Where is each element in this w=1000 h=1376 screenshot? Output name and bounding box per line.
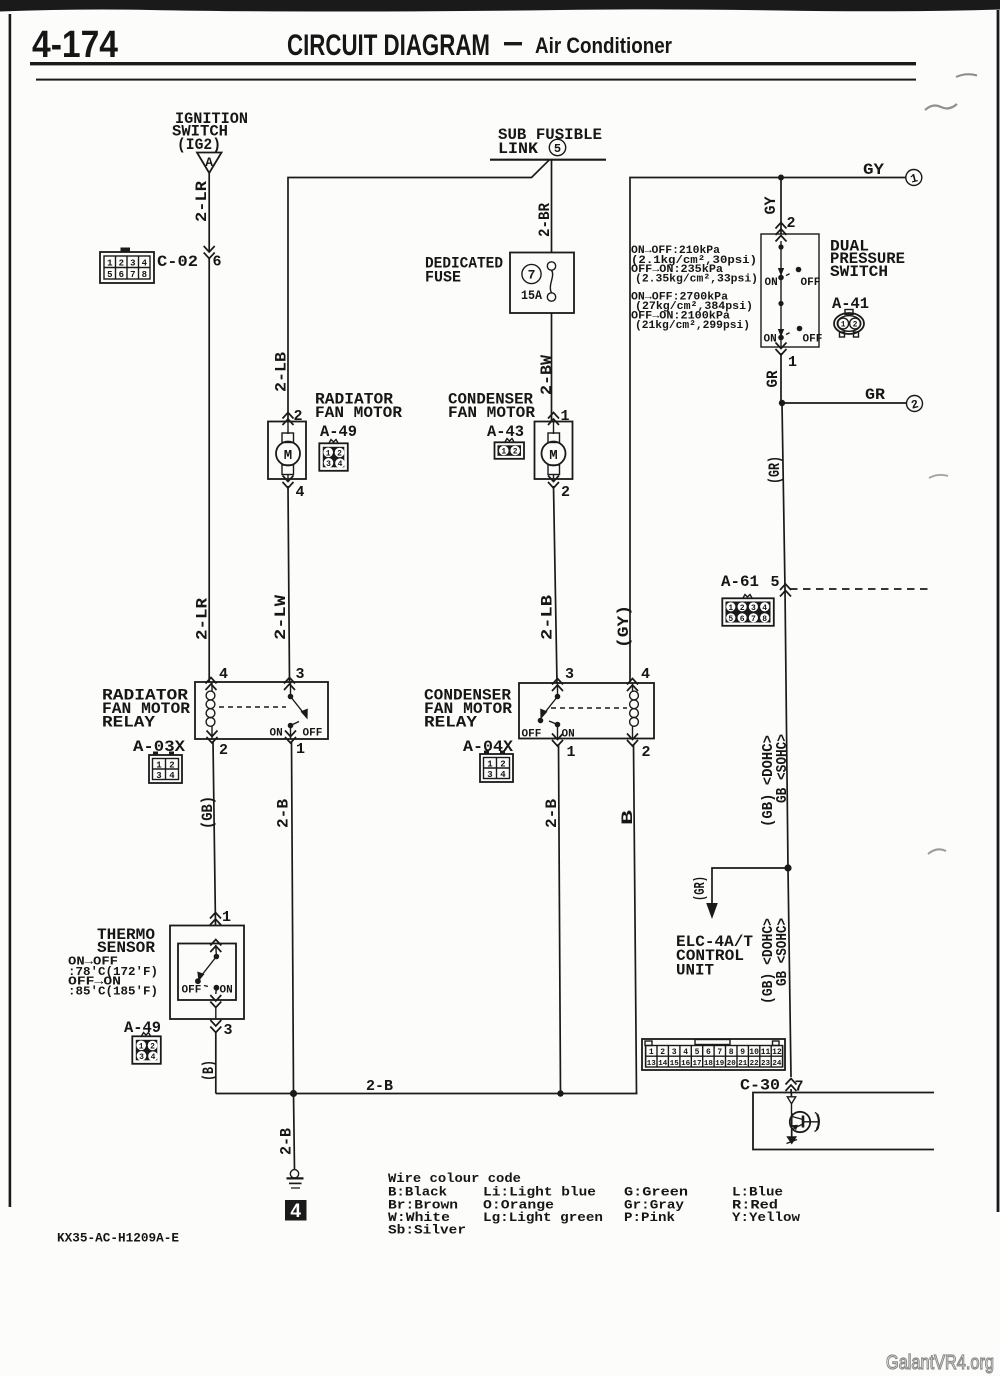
node GR junction — [779, 400, 785, 406]
relay coil condenser — [630, 683, 639, 739]
svg-text:21: 21 — [738, 1060, 748, 1068]
chevron inside box top — [776, 236, 787, 242]
connector break pin 1 — [776, 343, 787, 356]
svg-text:Lg:Light green: Lg:Light green — [483, 1210, 603, 1225]
ground symbol — [287, 1170, 304, 1188]
svg-text:B: B — [619, 809, 637, 825]
connector break pin 1 — [210, 913, 221, 926]
svg-text:2: 2 — [150, 1043, 155, 1052]
switch contact lower — [764, 277, 823, 346]
svg-text:3: 3 — [224, 1022, 233, 1039]
wire GY down to pressure switch — [780, 178, 782, 235]
svg-text:1: 1 — [326, 449, 331, 458]
header thick rule — [30, 62, 916, 65]
connector A-03X icon — [149, 752, 182, 784]
svg-text:4: 4 — [290, 1201, 301, 1222]
svg-text:(2.35kg/cm²,33psi): (2.35kg/cm²,33psi) — [635, 274, 758, 286]
svg-text:6: 6 — [213, 254, 222, 271]
node ground junction — [290, 1090, 297, 1097]
connector break pin 2 — [548, 476, 559, 489]
svg-text:15A: 15A — [521, 288, 542, 303]
relay A-03X box — [195, 682, 328, 739]
header dash — [504, 42, 522, 45]
svg-text:4: 4 — [142, 258, 148, 268]
svg-text:M: M — [284, 448, 292, 464]
scan artifact dash top right — [956, 74, 977, 77]
svg-text:OFF: OFF — [801, 277, 821, 289]
wire A-61 to junction — [785, 589, 788, 868]
svg-text:3: 3 — [487, 770, 492, 780]
svg-text:LINK: LINK — [498, 140, 538, 158]
svg-text:2-B: 2-B — [278, 1128, 296, 1155]
svg-text:FUSE: FUSE — [425, 269, 461, 287]
svg-text:11: 11 — [761, 1048, 771, 1057]
svg-text:3: 3 — [139, 1053, 144, 1062]
svg-text:RELAY: RELAY — [102, 714, 155, 732]
svg-text:ON: ON — [764, 334, 777, 346]
connector break pin 3 — [210, 1020, 221, 1033]
svg-text:19: 19 — [715, 1060, 725, 1068]
thermo switch — [182, 945, 233, 997]
svg-text:4: 4 — [641, 666, 650, 683]
svg-text:ON: ON — [220, 985, 233, 997]
svg-text:2-LR: 2-LR — [193, 181, 211, 222]
svg-text:GR: GR — [865, 386, 885, 404]
connector A-49 icon — [319, 440, 348, 471]
connector A-04X icon — [480, 751, 513, 783]
svg-text:(GR): (GR) — [692, 876, 709, 901]
svg-text:1: 1 — [561, 408, 570, 425]
svg-text:2: 2 — [642, 744, 651, 761]
svg-text:2: 2 — [561, 484, 570, 501]
svg-text:A-61: A-61 — [721, 573, 759, 591]
svg-text:SWITCH: SWITCH — [830, 263, 888, 281]
svg-text:6: 6 — [740, 615, 745, 624]
svg-text:13: 13 — [647, 1060, 657, 1068]
connector break pin 2 — [283, 413, 294, 426]
svg-text:(IG2): (IG2) — [177, 136, 221, 154]
svg-text:GR: GR — [764, 370, 782, 387]
svg-text:16: 16 — [681, 1060, 691, 1068]
connector break pin 4 — [283, 476, 294, 489]
control unit box (open right) — [753, 1093, 934, 1150]
GR off-page wire — [782, 402, 906, 404]
svg-text:FAN MOTOR: FAN MOTOR — [448, 404, 535, 422]
connector break pin 2 — [207, 731, 218, 744]
svg-text:P:Pink: P:Pink — [624, 1210, 675, 1225]
svg-text:23: 23 — [761, 1060, 771, 1068]
right bus GY wire — [630, 178, 906, 683]
wire 2-B cond relay to bus — [559, 744, 561, 1094]
connector break pin 3 — [284, 678, 295, 691]
svg-text:3: 3 — [156, 771, 161, 781]
svg-text:24: 24 — [772, 1060, 782, 1068]
svg-text:2-LR: 2-LR — [194, 598, 212, 640]
connector break pin 1 — [548, 413, 559, 426]
svg-text:1: 1 — [788, 354, 797, 371]
svg-text:4: 4 — [762, 604, 767, 613]
svg-text:FAN MOTOR: FAN MOTOR — [315, 404, 402, 422]
svg-text:3: 3 — [672, 1048, 677, 1057]
svg-text:14: 14 — [658, 1060, 668, 1068]
svg-text:2-BW: 2-BW — [538, 355, 556, 395]
svg-text:5: 5 — [107, 270, 112, 280]
off-page circle 2 — [907, 396, 923, 413]
svg-text:3: 3 — [751, 604, 756, 613]
wire (GB) relay to thermo — [213, 741, 216, 925]
svg-text:1: 1 — [841, 321, 846, 330]
connector break pin 2 — [776, 223, 787, 236]
svg-text:CIRCUIT DIAGRAM: CIRCUIT DIAGRAM — [287, 29, 490, 62]
svg-text:1: 1 — [222, 909, 231, 926]
connector A-49 thermo icon — [132, 1033, 161, 1064]
connector break pin 4 — [627, 679, 638, 692]
svg-text:(GR): (GR) — [766, 456, 784, 484]
svg-text:2: 2 — [169, 760, 174, 770]
svg-text:7: 7 — [751, 615, 756, 624]
wire to ELC arrow — [712, 868, 788, 905]
connector break pin 4 — [206, 678, 217, 691]
svg-text:1: 1 — [296, 741, 305, 758]
svg-text:1: 1 — [139, 1042, 144, 1051]
connector C-02 icon — [100, 248, 154, 284]
motor M box condenser — [535, 422, 573, 480]
connector break pin 7 — [786, 1079, 797, 1092]
arrowhead ELC — [706, 903, 718, 919]
svg-text:2: 2 — [294, 408, 303, 425]
connector A-61 icon — [722, 595, 774, 626]
svg-text:(21kg/cm²,299psi): (21kg/cm²,299psi) — [635, 320, 750, 332]
svg-text:2: 2 — [119, 258, 124, 268]
svg-text:2-LW: 2-LW — [272, 595, 290, 640]
svg-text:KX35-AC-H1209A-E: KX35-AC-H1209A-E — [57, 1231, 179, 1246]
svg-text:Y:Yellow: Y:Yellow — [732, 1210, 800, 1225]
svg-text:A-03X: A-03X — [133, 738, 185, 756]
svg-text::85'C(185'F): :85'C(185'F) — [68, 985, 158, 999]
bus wire 2-B — [216, 1093, 638, 1095]
thermo sensor outer box — [170, 926, 244, 1020]
svg-text:18: 18 — [704, 1060, 714, 1068]
svg-text:OFF: OFF — [303, 728, 323, 740]
svg-text:2-B: 2-B — [543, 799, 561, 828]
wire link to fuse — [551, 160, 553, 253]
svg-text:1: 1 — [649, 1048, 654, 1057]
svg-text:4: 4 — [500, 770, 506, 780]
svg-text:RELAY: RELAY — [424, 714, 477, 732]
svg-text:4: 4 — [683, 1048, 688, 1057]
wire pressure switch to A-61 — [782, 403, 785, 589]
relay coil radiator — [206, 682, 215, 739]
svg-text:(B): (B) — [200, 1060, 218, 1081]
svg-text:A-43: A-43 — [487, 423, 524, 441]
svg-text:2-B: 2-B — [366, 1078, 393, 1095]
svg-text:9: 9 — [740, 1048, 745, 1057]
wire 2-LR ignition to C-02 — [208, 173, 210, 252]
svg-text:6: 6 — [119, 270, 124, 280]
connector break pin 1 — [285, 731, 296, 744]
svg-text:1: 1 — [156, 760, 162, 770]
svg-text:4: 4 — [169, 771, 175, 781]
off-page circle 1 — [906, 170, 922, 187]
transistor Q in control unit — [786, 1089, 819, 1145]
svg-text:8: 8 — [142, 270, 147, 280]
connector A-41 icon — [834, 310, 864, 338]
svg-text:GY: GY — [863, 161, 884, 179]
svg-text:2: 2 — [853, 321, 858, 330]
wire GR below switch — [780, 353, 782, 403]
dual pressure switch box — [761, 234, 819, 347]
svg-text:ON: ON — [270, 728, 283, 740]
svg-text:1: 1 — [107, 258, 113, 268]
svg-text:GalantVR4.org: GalantVR4.org — [886, 1352, 994, 1374]
svg-text:3: 3 — [296, 666, 305, 683]
connector C-30 icon — [642, 1039, 785, 1070]
wire 2-BW fuse to condenser motor — [551, 313, 553, 421]
svg-text:5: 5 — [554, 142, 561, 156]
svg-text:4-174: 4-174 — [32, 24, 118, 66]
svg-text:1: 1 — [567, 744, 576, 761]
node junction at 868 — [784, 864, 791, 871]
chevron at inner box bottom — [210, 995, 221, 1008]
fusible link bar — [490, 159, 606, 161]
svg-text:2: 2 — [740, 604, 745, 613]
header thin rule — [36, 79, 916, 81]
scan border: left edge line — [9, 14, 12, 1207]
thermo condition text — [68, 955, 158, 999]
fuse F7 box — [510, 253, 574, 314]
svg-text:20: 20 — [727, 1060, 737, 1068]
wire B cond relay to bus corner — [634, 744, 637, 1094]
svg-text:4: 4 — [296, 484, 305, 501]
svg-text:GY: GY — [762, 196, 780, 214]
switch contact upper — [765, 241, 821, 289]
svg-text:M: M — [549, 448, 557, 464]
wire junction to C-30 — [788, 868, 791, 1077]
page reference black box 4 — [285, 1200, 307, 1222]
svg-text:C-02: C-02 — [157, 253, 198, 271]
connector break pin 1 — [552, 734, 563, 747]
svg-text:8: 8 — [762, 615, 767, 624]
node: bus tap to pressure switch — [778, 175, 784, 181]
svg-text:4: 4 — [219, 666, 228, 683]
svg-text:8: 8 — [729, 1048, 734, 1057]
svg-text:A-41: A-41 — [832, 295, 869, 313]
svg-text:2: 2 — [337, 450, 342, 459]
svg-text:5: 5 — [728, 615, 733, 624]
svg-text:5: 5 — [771, 574, 780, 591]
svg-text:17: 17 — [692, 1060, 701, 1068]
svg-text:2-B: 2-B — [275, 799, 293, 828]
svg-text:Sb:Silver: Sb:Silver — [388, 1222, 466, 1237]
svg-text:GB <SOHC>: GB <SOHC> — [774, 734, 791, 803]
wire 2-LB motor to relay — [554, 486, 558, 683]
ignition source triangle A — [197, 153, 222, 174]
svg-text:6: 6 — [706, 1048, 711, 1057]
svg-text:12: 12 — [772, 1048, 782, 1057]
connector A-43 icon — [495, 439, 525, 459]
svg-text:2: 2 — [500, 759, 505, 769]
svg-text:4: 4 — [338, 460, 343, 469]
svg-text:2: 2 — [513, 448, 518, 457]
svg-text:(GY): (GY) — [615, 605, 633, 648]
relay switch condenser — [522, 683, 575, 741]
chevron at inner box top — [210, 940, 221, 953]
relay A-04X box — [519, 683, 654, 739]
scan artifact tilde right — [925, 104, 957, 110]
svg-text:3: 3 — [326, 460, 331, 469]
svg-text:2: 2 — [660, 1048, 665, 1057]
svg-text:4: 4 — [151, 1053, 156, 1062]
svg-text:1: 1 — [728, 604, 733, 613]
svg-text:15: 15 — [670, 1060, 680, 1068]
svg-text:OFF: OFF — [522, 729, 542, 741]
node cond 2-B junction — [557, 1090, 563, 1096]
motor M box radiator — [268, 422, 306, 480]
relay dashed link — [219, 706, 286, 708]
svg-text:3: 3 — [130, 258, 135, 268]
svg-text:UNIT: UNIT — [676, 962, 714, 980]
connector break at C-02 pin 6 — [204, 246, 215, 259]
svg-text:A: A — [205, 155, 213, 170]
wire (B) thermo to bus — [215, 1031, 217, 1094]
left bus wire — [288, 178, 531, 422]
wire 2-B relay to bus — [292, 741, 294, 1094]
connector break A-61 — [780, 584, 791, 597]
svg-text:1: 1 — [501, 448, 506, 457]
connector break pin 2 — [627, 734, 638, 747]
thermo sensor inner box — [178, 944, 236, 1001]
svg-text:22: 22 — [750, 1060, 760, 1068]
svg-text:2: 2 — [219, 742, 228, 759]
svg-text:ON: ON — [562, 729, 575, 741]
dashed line A-61 — [790, 588, 928, 590]
svg-text:10: 10 — [749, 1048, 759, 1057]
svg-text:OFF: OFF — [182, 985, 202, 997]
relay dashed link — [551, 707, 627, 709]
diagonal tap from bus to link — [531, 160, 550, 178]
svg-text:2-LB: 2-LB — [273, 352, 291, 392]
scan artifact curve lower right — [928, 849, 946, 854]
wire 2-LR C-02 to relay — [208, 257, 210, 682]
scan border: top black bar — [0, 0, 1000, 12]
svg-text:7: 7 — [717, 1048, 722, 1057]
svg-text:(GB): (GB) — [199, 796, 217, 829]
svg-text:2: 2 — [787, 215, 796, 232]
connector break pin 3 — [552, 679, 563, 692]
svg-text:7: 7 — [528, 268, 536, 283]
svg-text:A-49: A-49 — [320, 423, 357, 441]
svg-text:OFF: OFF — [803, 334, 823, 346]
svg-text:3: 3 — [565, 666, 574, 683]
svg-text:Air Conditioner: Air Conditioner — [535, 33, 672, 58]
relay switch radiator — [270, 682, 323, 740]
wire 2-LW motor to relay — [288, 486, 290, 682]
svg-text:2-LB: 2-LB — [539, 595, 557, 640]
scan border: right edge line — [997, 10, 1000, 1212]
svg-text:GB <SOHC>: GB <SOHC> — [774, 918, 791, 986]
svg-text:ON: ON — [765, 277, 778, 289]
circled 5 fusible link number — [549, 139, 565, 156]
svg-text:5: 5 — [695, 1048, 700, 1057]
svg-text:1: 1 — [487, 759, 493, 769]
scan artifact curve mid right — [929, 475, 948, 478]
wire to ground — [294, 1094, 295, 1171]
svg-text:7: 7 — [130, 270, 135, 280]
